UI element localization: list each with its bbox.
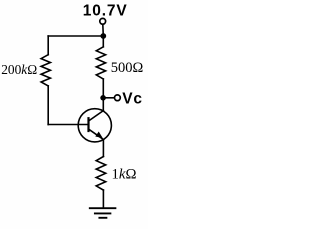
transistor Q1 base bar xyxy=(87,118,89,131)
resistor 1k zigzag xyxy=(96,157,106,191)
node Vc junction dot xyxy=(100,95,106,101)
wire collector rail xyxy=(102,79,104,111)
transistor Q1 emitter arrow xyxy=(95,132,102,139)
wire left rail upper xyxy=(47,36,49,55)
wire main rail to 500 resistor xyxy=(102,36,104,47)
wire base horizontal xyxy=(48,124,88,126)
wire left rail lower xyxy=(47,86,49,125)
svg-text:Vc: Vc xyxy=(122,91,143,108)
node A junction dot xyxy=(100,33,106,39)
svg-text:500Ω: 500Ω xyxy=(111,60,144,76)
wire terminal to top node xyxy=(102,24,105,36)
resistor 500 zigzag xyxy=(96,47,105,79)
transistor Q1 collector lead xyxy=(89,111,104,121)
supply terminal (open circle) xyxy=(100,18,106,24)
resistor 200k zigzag xyxy=(41,55,50,86)
wire top horizontal xyxy=(48,35,103,37)
svg-text:200kΩ: 200kΩ xyxy=(1,62,37,77)
ground symbol xyxy=(90,208,116,218)
wire emitter to 1k resistor xyxy=(102,140,104,157)
transistor Q1 circle xyxy=(78,109,111,142)
transistor Q1 emitter lead xyxy=(89,129,104,140)
Vc terminal (open circle) xyxy=(115,95,121,101)
svg-text:1kΩ: 1kΩ xyxy=(112,166,137,182)
svg-text:10.7V: 10.7V xyxy=(83,2,128,19)
wire to Vc terminal xyxy=(103,97,114,99)
wire 1k resistor to ground xyxy=(102,190,104,207)
